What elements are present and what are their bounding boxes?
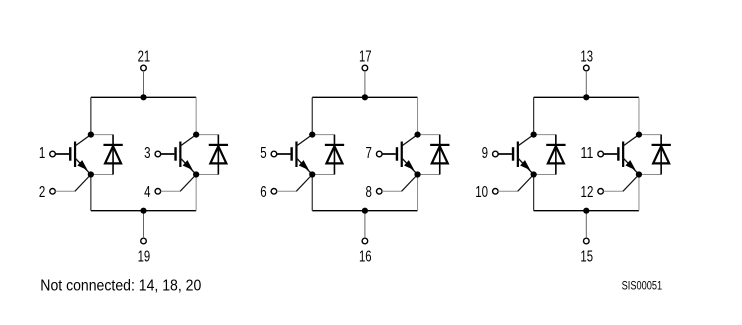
svg-text:11: 11 xyxy=(581,145,594,162)
node bottom bus junction module 3 xyxy=(583,208,589,214)
wire diode D5 anode connection xyxy=(534,174,556,176)
wire terminal 21 stub xyxy=(143,71,145,98)
wire top bus module 3 xyxy=(534,96,639,98)
svg-text:3: 3 xyxy=(144,145,150,162)
terminal pin 13 (collector, top) xyxy=(584,65,590,71)
svg-text:10: 10 xyxy=(475,184,488,201)
diode D1 (freewheeling, anode bottom / cathode top) xyxy=(103,135,122,175)
svg-text:6: 6 xyxy=(260,184,266,201)
svg-text:Not connected: 14, 18, 20: Not connected: 14, 18, 20 xyxy=(40,277,201,294)
wire diode D3 anode connection xyxy=(312,174,334,176)
terminal pin 12 (auxiliary emitter) xyxy=(598,189,604,195)
terminal pin 3 (gate) xyxy=(155,151,161,157)
terminal pin 21 (collector, top) xyxy=(141,65,147,71)
wire auxiliary emitter pin 10 xyxy=(498,175,534,192)
svg-text:12: 12 xyxy=(581,184,594,201)
wire terminal 19 stub xyxy=(143,211,145,239)
wire left bus vertical module 3 xyxy=(533,97,535,210)
svg-text:9: 9 xyxy=(482,145,488,162)
diode D6 (freewheeling, anode bottom / cathode top) xyxy=(652,135,671,175)
terminal pin 16 (emitter, bottom) xyxy=(362,238,368,244)
terminal pin 4 (auxiliary emitter) xyxy=(155,189,161,195)
terminal pin 15 (emitter, bottom) xyxy=(584,238,590,244)
terminal pin 9 (gate) xyxy=(493,151,499,157)
node collector Q4 xyxy=(414,132,420,138)
transistor Q2 (IGBT, gate pin 3, aux emitter pin 4) xyxy=(161,135,197,175)
wire terminal 17 stub xyxy=(364,71,366,98)
wire left bus vertical module 1 xyxy=(90,97,92,210)
wire diode D4 anode connection xyxy=(418,174,440,176)
node top bus junction module 1 xyxy=(140,94,146,100)
svg-text:17: 17 xyxy=(359,49,372,66)
terminal pin 17 (collector, top) xyxy=(362,65,368,71)
wire diode D1 anode connection xyxy=(91,174,113,176)
wire right bus vertical module 3 xyxy=(638,97,640,210)
wire auxiliary emitter pin 12 xyxy=(603,175,639,192)
wire terminal 15 stub xyxy=(585,211,587,239)
wire diode D4 cathode connection xyxy=(418,134,440,136)
wire diode D2 cathode connection xyxy=(196,134,218,136)
node emitter Q3 xyxy=(309,171,315,177)
svg-text:7: 7 xyxy=(366,145,372,162)
svg-text:16: 16 xyxy=(359,248,372,265)
svg-text:SIS00051: SIS00051 xyxy=(622,281,663,293)
wire left bus vertical module 2 xyxy=(311,97,313,210)
wire terminal 16 stub xyxy=(364,211,366,239)
terminal pin 10 (auxiliary emitter) xyxy=(493,189,499,195)
node top bus junction module 3 xyxy=(583,94,589,100)
svg-text:5: 5 xyxy=(260,145,266,162)
wire bottom bus module 1 xyxy=(91,210,196,212)
wire bottom bus module 2 xyxy=(312,210,417,212)
svg-text:4: 4 xyxy=(144,184,150,201)
svg-text:13: 13 xyxy=(580,49,593,66)
node collector Q2 xyxy=(193,132,199,138)
wire auxiliary emitter pin 2 xyxy=(55,175,91,192)
diode D2 (freewheeling, anode bottom / cathode top) xyxy=(209,135,228,175)
wire terminal 13 stub xyxy=(585,71,587,98)
node bottom bus junction module 2 xyxy=(362,208,368,214)
svg-text:15: 15 xyxy=(580,248,593,265)
node emitter Q6 xyxy=(636,171,642,177)
wire auxiliary emitter pin 4 xyxy=(161,175,197,192)
wire auxiliary emitter pin 8 xyxy=(382,175,418,192)
node top bus junction module 2 xyxy=(362,94,368,100)
terminal pin 6 (auxiliary emitter) xyxy=(271,189,277,195)
wire top bus module 2 xyxy=(312,96,417,98)
transistor Q3 (IGBT, gate pin 5, aux emitter pin 6) xyxy=(277,135,313,175)
wire diode D6 cathode connection xyxy=(639,134,661,136)
transistor Q1 (IGBT, gate pin 1, aux emitter pin 2) xyxy=(55,135,91,175)
terminal pin 2 (auxiliary emitter) xyxy=(50,189,56,195)
transistor Q5 (IGBT, gate pin 9, aux emitter pin 10) xyxy=(498,135,534,175)
node emitter Q4 xyxy=(414,171,420,177)
terminal pin 7 (gate) xyxy=(376,151,382,157)
wire diode D1 cathode connection xyxy=(91,134,113,136)
node emitter Q2 xyxy=(193,171,199,177)
svg-text:2: 2 xyxy=(39,184,45,201)
wire right bus vertical module 2 xyxy=(417,97,419,210)
wire diode D6 anode connection xyxy=(639,174,661,176)
wire top bus module 1 xyxy=(91,96,196,98)
transistor Q4 (IGBT, gate pin 7, aux emitter pin 8) xyxy=(382,135,418,175)
svg-text:8: 8 xyxy=(366,184,372,201)
svg-text:21: 21 xyxy=(138,49,151,66)
wire bottom bus module 3 xyxy=(534,210,639,212)
terminal pin 1 (gate) xyxy=(50,151,56,157)
diode D4 (freewheeling, anode bottom / cathode top) xyxy=(430,135,449,175)
node emitter Q5 xyxy=(531,171,537,177)
node collector Q5 xyxy=(531,132,537,138)
wire auxiliary emitter pin 6 xyxy=(277,175,313,192)
diode D3 (freewheeling, anode bottom / cathode top) xyxy=(325,135,344,175)
wire diode D2 anode connection xyxy=(196,174,218,176)
svg-text:1: 1 xyxy=(39,145,45,162)
node collector Q1 xyxy=(88,132,94,138)
wire diode D5 cathode connection xyxy=(534,134,556,136)
wire right bus vertical module 1 xyxy=(195,97,197,210)
node collector Q3 xyxy=(309,132,315,138)
terminal pin 19 (emitter, bottom) xyxy=(141,238,147,244)
terminal pin 11 (gate) xyxy=(598,151,604,157)
terminal pin 5 (gate) xyxy=(271,151,277,157)
transistor Q6 (IGBT, gate pin 11, aux emitter pin 12) xyxy=(603,135,639,175)
node bottom bus junction module 1 xyxy=(140,208,146,214)
terminal pin 8 (auxiliary emitter) xyxy=(376,189,382,195)
svg-text:19: 19 xyxy=(138,248,151,265)
diode D5 (freewheeling, anode bottom / cathode top) xyxy=(546,135,565,175)
node collector Q6 xyxy=(636,132,642,138)
node emitter Q1 xyxy=(88,171,94,177)
wire diode D3 cathode connection xyxy=(312,134,334,136)
